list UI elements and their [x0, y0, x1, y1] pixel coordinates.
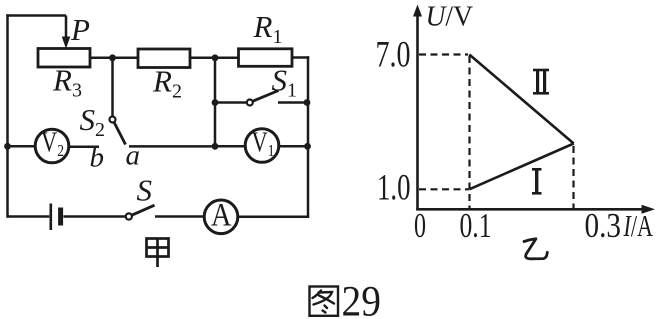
graph U axis arrow	[413, 5, 422, 17]
voltmeter V1	[245, 129, 279, 163]
svg-text:0.1: 0.1	[460, 206, 492, 245]
svg-text:1.0: 1.0	[377, 168, 411, 209]
wire R3 to R2	[90, 57, 138, 60]
wire junction A down to S2	[111, 58, 114, 117]
svg-text:U/V: U/V	[426, 1, 474, 33]
ammeter A	[204, 200, 238, 234]
wire to V1	[215, 145, 245, 148]
wire R2 to R1	[190, 57, 239, 60]
battery short plate	[58, 208, 63, 226]
switch S pivot	[126, 213, 132, 219]
dashed guide 1.0	[419, 188, 469, 190]
label II curve	[533, 70, 549, 93]
resistor R3	[38, 49, 90, 68]
wire junction B down	[214, 58, 217, 147]
node junction B	[212, 54, 219, 61]
slider arrow head P	[62, 37, 71, 49]
wire S to ammeter	[155, 215, 204, 218]
battery long plate	[49, 204, 52, 231]
wire to S1 pivot	[215, 101, 247, 104]
graph U axis	[416, 13, 419, 210]
node junction A	[109, 54, 116, 61]
voltmeter V2	[35, 129, 69, 163]
svg-text:R2: R2	[152, 64, 182, 103]
curve I	[469, 144, 573, 190]
svg-text:0.3: 0.3	[585, 206, 622, 245]
curve II	[469, 55, 573, 190]
label 图	[310, 287, 339, 316]
wire V1 to right rail	[279, 145, 308, 148]
switch S2 lever	[114, 123, 125, 145]
switch S lever	[132, 205, 155, 215]
resistor R2	[138, 49, 190, 68]
wire ammeter to right rail	[238, 216, 309, 219]
switch S1 pivot	[247, 100, 253, 106]
svg-text:R1: R1	[253, 9, 283, 48]
node V1 left junction	[212, 143, 219, 150]
wire S1 fixed side	[278, 101, 308, 104]
node V2 left rail	[4, 143, 11, 150]
wire slider stem	[65, 16, 68, 42]
node S1 right rail	[304, 99, 311, 106]
svg-text:S: S	[137, 173, 153, 208]
node V1 right rail	[304, 143, 311, 150]
label 甲	[147, 239, 169, 268]
svg-text:A: A	[211, 198, 232, 234]
dashed guide 0.1 vertical	[468, 56, 470, 209]
svg-text:S2: S2	[80, 102, 106, 141]
switch S1 lever	[253, 91, 279, 102]
node S1 branch	[212, 99, 219, 106]
dashed guide apex vertical	[572, 146, 574, 209]
svg-text:I/A: I/A	[623, 208, 654, 243]
svg-text:29: 29	[342, 279, 382, 319]
wire V2 to contact b	[69, 146, 99, 149]
resistor R1	[239, 49, 293, 67]
wire bottom left	[8, 215, 50, 218]
dashed guide 7.0	[419, 55, 574, 209]
svg-text:7.0: 7.0	[376, 35, 411, 76]
label I curve	[532, 169, 542, 193]
wire R1 to right rail	[292, 56, 309, 59]
wire left rail	[6, 14, 9, 217]
svg-text:b: b	[90, 142, 105, 174]
svg-text:S1: S1	[272, 63, 298, 102]
wire right rail	[307, 56, 310, 217]
wire battery to S	[64, 215, 126, 218]
wire contact a to V1 junction	[129, 145, 215, 148]
label 乙	[524, 239, 547, 259]
wire left rail to V2	[8, 145, 36, 148]
svg-text:P: P	[70, 12, 90, 47]
svg-text:0: 0	[414, 206, 426, 245]
svg-text:a: a	[126, 140, 141, 172]
graph I axis	[416, 208, 643, 211]
switch S2 pivot	[110, 117, 116, 123]
wire top	[6, 14, 66, 17]
graph I axis arrow	[642, 205, 656, 214]
